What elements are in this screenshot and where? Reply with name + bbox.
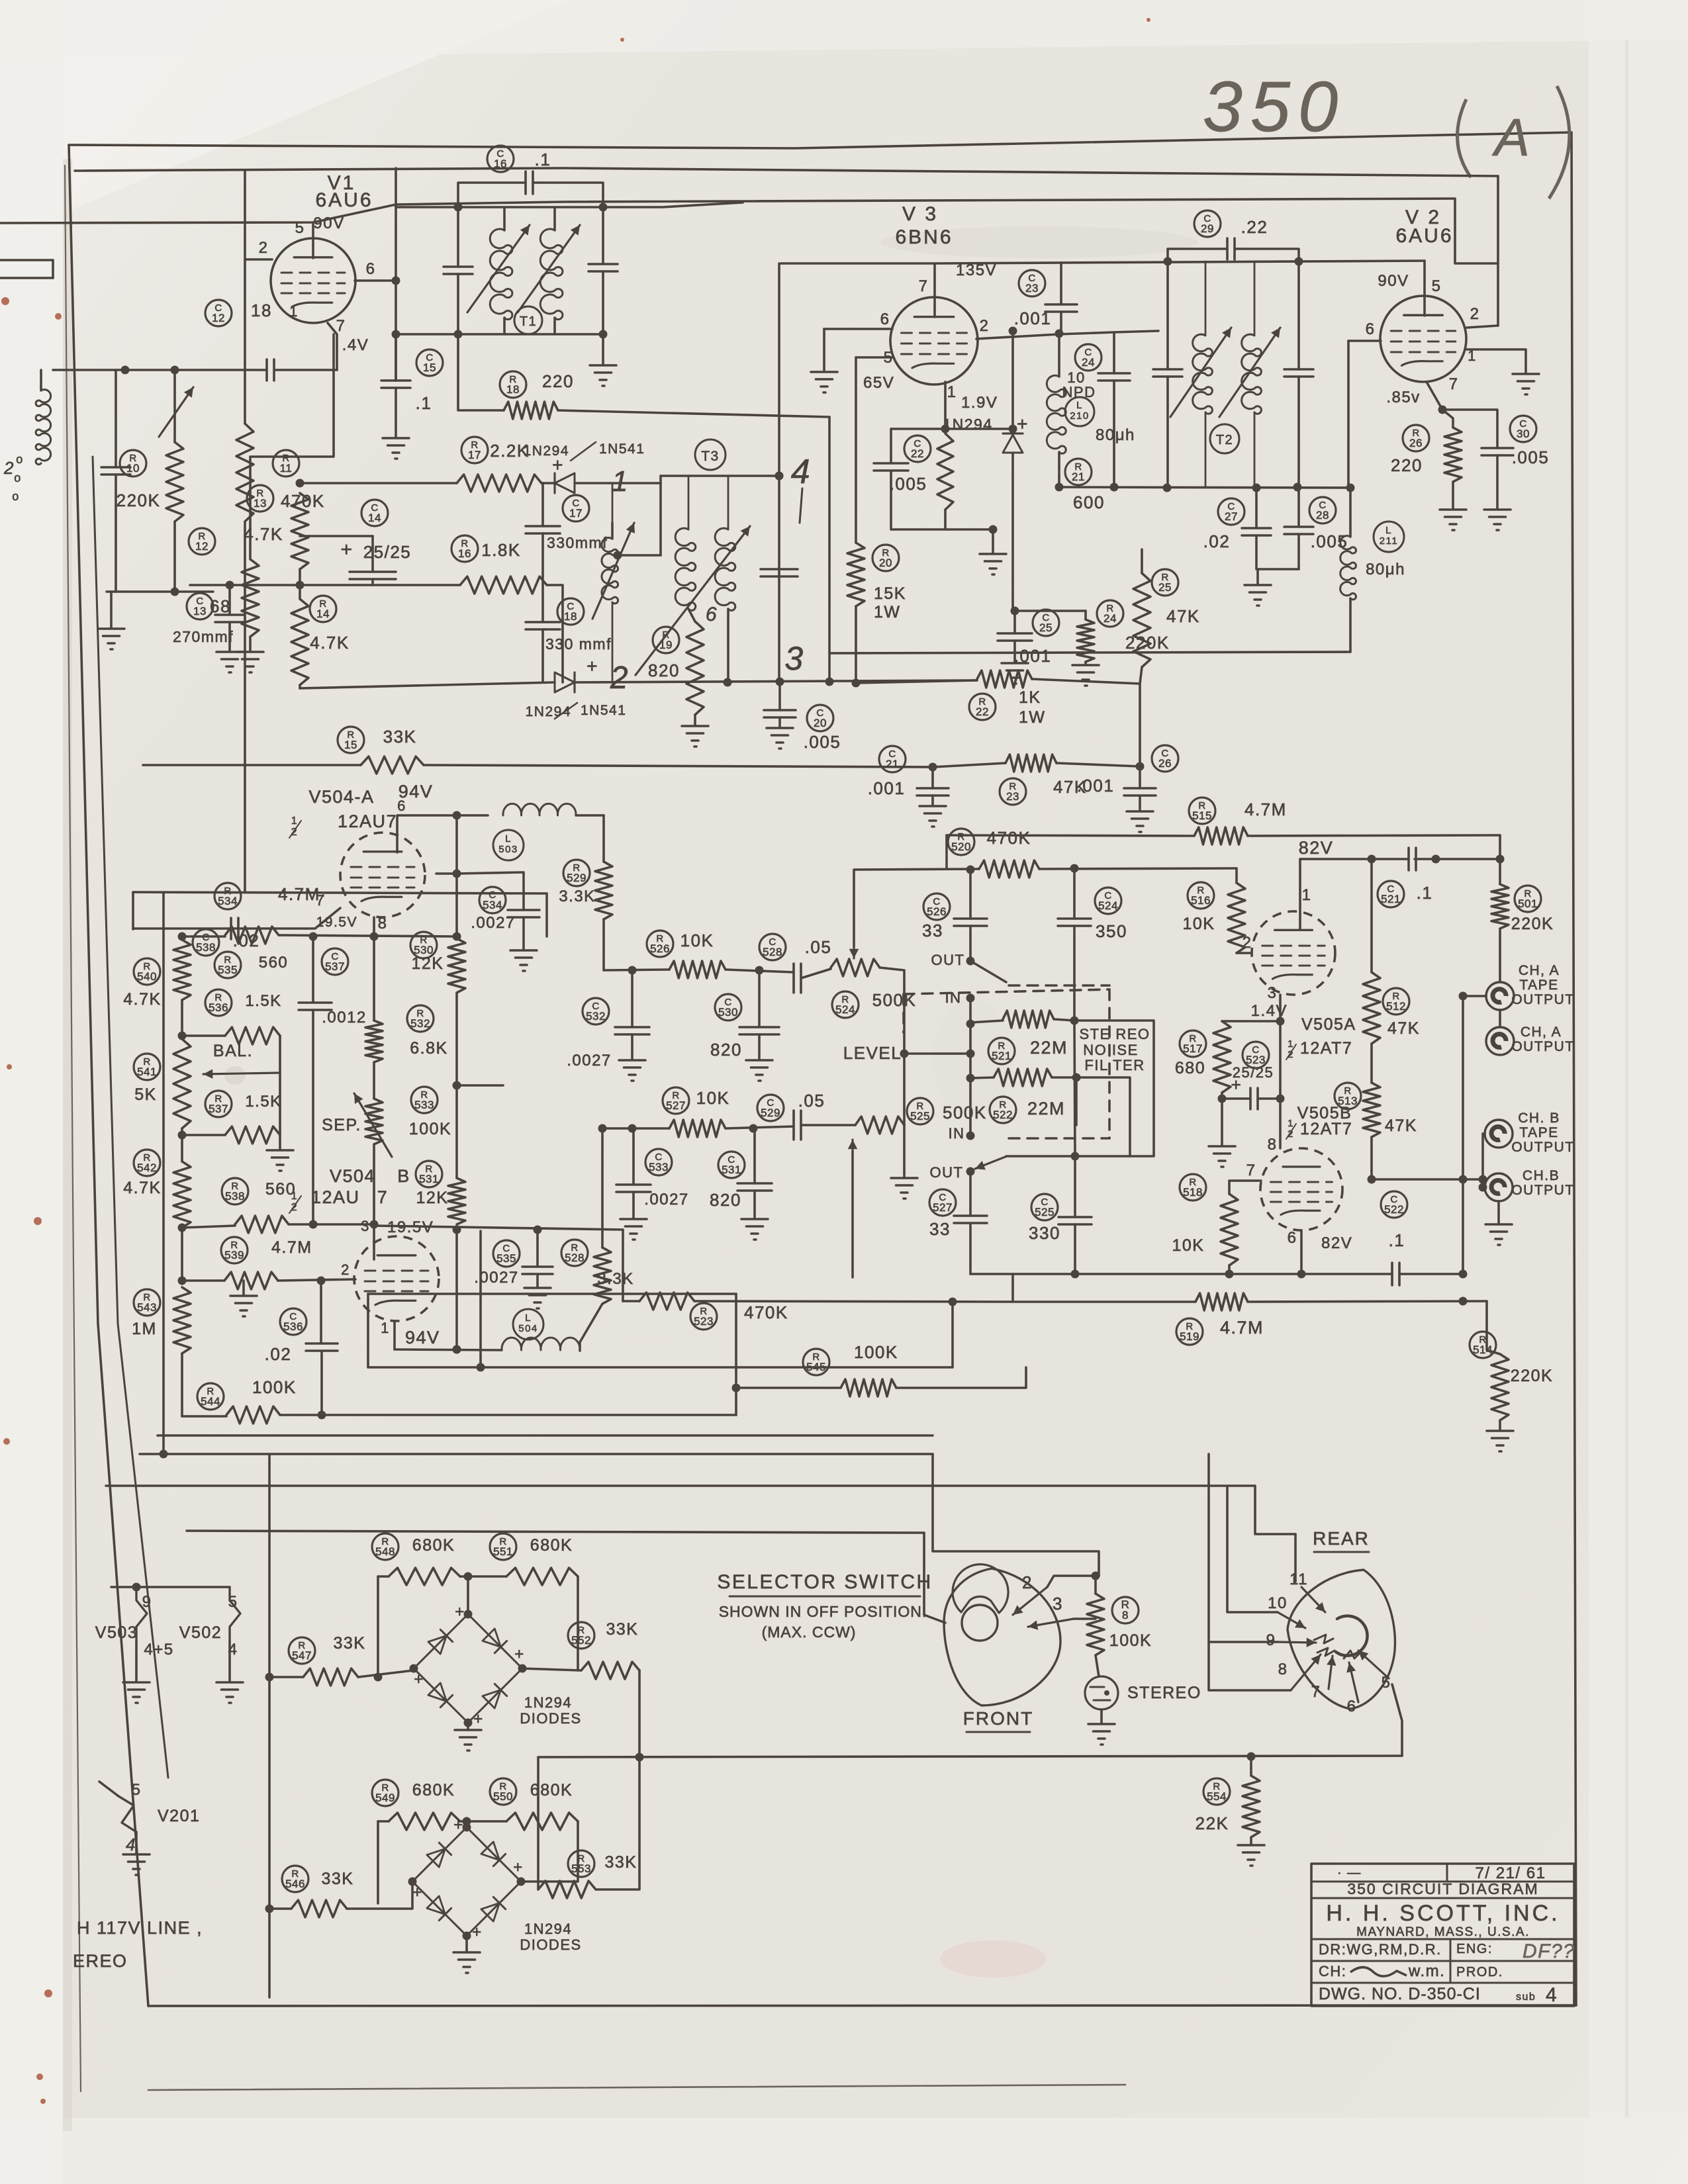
capacitor C531 820 xyxy=(718,1152,745,1178)
resistor R8 100K xyxy=(1112,1597,1139,1623)
svg-text:528: 528 xyxy=(565,1251,585,1264)
svg-text:SHOWN IN OFF POSITION.: SHOWN IN OFF POSITION. xyxy=(719,1603,927,1620)
resistor R22 1K 1W xyxy=(977,670,1032,688)
svg-text:82V: 82V xyxy=(1321,1234,1352,1252)
V504A pin8 lead xyxy=(373,917,375,936)
jack CH A OUTPUT xyxy=(1486,1027,1514,1055)
V504A pin6 plate lead xyxy=(397,815,488,852)
wire4 long horizontal y1158 xyxy=(143,764,361,766)
svg-text:ENG:: ENG: xyxy=(1456,1942,1493,1956)
svg-text:T1: T1 xyxy=(520,314,537,329)
svg-text:680K: 680K xyxy=(412,1781,455,1799)
separation pot R533 100K SEP xyxy=(411,1087,438,1113)
V3 pin6 to ground xyxy=(824,328,851,330)
border frame left xyxy=(69,145,148,2006)
svg-text:.1: .1 xyxy=(416,393,432,413)
svg-text:.05: .05 xyxy=(798,1091,825,1111)
wire R515 row to C521 node corner xyxy=(1499,835,1501,884)
svg-text:10K: 10K xyxy=(696,1088,730,1108)
svg-text:12AU: 12AU xyxy=(311,1187,360,1207)
svg-text:1M: 1M xyxy=(132,1320,157,1338)
resistor R14 4.7K xyxy=(310,596,336,622)
capacitor C535 .0027 xyxy=(493,1240,520,1267)
capacitor C24 xyxy=(1075,344,1102,371)
65V vertical down to R20 xyxy=(855,357,857,543)
svg-text:532: 532 xyxy=(410,1017,430,1030)
ground under R21 node xyxy=(992,529,994,553)
svg-text:533: 533 xyxy=(649,1161,669,1173)
resistor R553 33K xyxy=(568,1850,594,1877)
svg-text:522: 522 xyxy=(1384,1203,1404,1216)
svg-text:4.7M: 4.7M xyxy=(1244,799,1287,819)
V1 pin 5 lead xyxy=(312,222,314,258)
border frame left inner line xyxy=(93,457,168,1778)
vertical x1439 xyxy=(951,1302,954,1367)
cathode node wires xyxy=(944,410,947,429)
node3 wire continues xyxy=(856,680,977,683)
svg-text:.02: .02 xyxy=(265,1344,292,1364)
svg-text:+: + xyxy=(412,1884,423,1901)
resistor R513 47K xyxy=(1335,1083,1361,1109)
svg-text:350: 350 xyxy=(1096,921,1127,941)
svg-text:33K: 33K xyxy=(606,1620,639,1639)
svg-text:524: 524 xyxy=(1098,899,1118,912)
svg-text:550: 550 xyxy=(493,1790,513,1803)
svg-text:2: 2 xyxy=(291,1202,298,1213)
wire pin5 tail to bottom wire xyxy=(1392,1684,1402,1756)
svg-text:11: 11 xyxy=(280,462,293,475)
capacitor C537 .0012 xyxy=(322,948,348,975)
svg-text:513: 513 xyxy=(1338,1095,1358,1107)
bottom wire pin1 row 94V node xyxy=(395,1349,502,1350)
svg-text:470K: 470K xyxy=(744,1302,788,1322)
svg-text:12AT7: 12AT7 xyxy=(1300,1039,1352,1058)
svg-text:2: 2 xyxy=(980,317,990,335)
ground under R12 xyxy=(249,637,252,651)
pin3 row extension xyxy=(374,1226,623,1230)
svg-text:6: 6 xyxy=(1347,1698,1357,1715)
tube V1 6AU6 xyxy=(271,238,355,323)
svg-text:7/ 21/ 61: 7/ 21/ 61 xyxy=(1476,1864,1546,1882)
svg-text:12AT7: 12AT7 xyxy=(1300,1120,1352,1138)
resistor R532 6.8K xyxy=(407,1005,434,1032)
resistor R542 4.7K xyxy=(134,1150,160,1176)
svg-text:NPD: NPD xyxy=(1062,384,1096,400)
resistor R528 3.3K xyxy=(561,1240,588,1266)
vertical continues to R15 row xyxy=(244,522,246,892)
svg-text:14: 14 xyxy=(316,608,330,620)
svg-text:+: + xyxy=(340,539,353,561)
capacitor C23 .001 xyxy=(1019,270,1045,296)
capacitor C30 .005 xyxy=(1510,416,1536,442)
jack CH A TAPE OUTPUT xyxy=(1486,982,1514,1010)
svg-text:80μh: 80μh xyxy=(1096,426,1135,444)
svg-text:350: 350 xyxy=(1203,66,1346,146)
ground under left cap xyxy=(110,592,113,627)
tube V504B half 12AU7 dashed xyxy=(354,1236,439,1321)
resistor R17 2.2K xyxy=(461,437,488,463)
svg-text:DIODES: DIODES xyxy=(520,1936,581,1953)
svg-text:T3: T3 xyxy=(701,449,720,464)
svg-text:2: 2 xyxy=(259,239,269,257)
svg-text:526: 526 xyxy=(927,905,947,918)
V3 box vertical left xyxy=(780,262,782,265)
svg-text:100K: 100K xyxy=(854,1342,898,1362)
svg-text:+: + xyxy=(513,1858,524,1876)
resistor R13 4.7K xyxy=(247,485,273,512)
svg-text:8: 8 xyxy=(1278,1661,1288,1678)
svg-text:sub: sub xyxy=(1516,1991,1536,2003)
svg-text:· —: · — xyxy=(1337,1866,1362,1880)
svg-text:350 CIRCUIT DIAGRAM: 350 CIRCUIT DIAGRAM xyxy=(1347,1880,1538,1897)
svg-text:90V: 90V xyxy=(313,214,344,232)
svg-text:553: 553 xyxy=(571,1862,591,1875)
svg-text:524: 524 xyxy=(835,1003,855,1016)
svg-text:.4V: .4V xyxy=(342,336,369,354)
ground under balance xyxy=(279,1135,281,1149)
svg-text:538: 538 xyxy=(225,1190,245,1203)
resistor R517 680 xyxy=(1180,1030,1206,1057)
svg-text:10: 10 xyxy=(1268,1594,1288,1612)
long wire y2655 xyxy=(538,1756,1402,1757)
ground left of C536 xyxy=(242,1281,245,1295)
T2 secondary coil xyxy=(1254,261,1256,336)
svg-text:V502: V502 xyxy=(179,1623,222,1642)
svg-text:10K: 10K xyxy=(1183,915,1215,933)
svg-text:5: 5 xyxy=(132,1781,142,1799)
svg-text:528: 528 xyxy=(763,946,782,958)
ground under T1 right xyxy=(602,334,604,364)
svg-text:MAYNARD, MASS., U.S.A.: MAYNARD, MASS., U.S.A. xyxy=(1356,1925,1530,1939)
svg-text:529: 529 xyxy=(567,872,586,884)
svg-text:520: 520 xyxy=(951,841,971,853)
svg-text:25: 25 xyxy=(1039,621,1053,634)
svg-text:A: A xyxy=(1492,108,1531,167)
svg-text:CH, A: CH, A xyxy=(1521,1024,1562,1040)
svg-text:545: 545 xyxy=(806,1361,826,1373)
svg-text:536: 536 xyxy=(209,1001,228,1014)
wire from R18 to dropdown xyxy=(558,410,829,417)
svg-text:220K: 220K xyxy=(1511,1367,1553,1385)
svg-text:25: 25 xyxy=(1158,581,1172,594)
svg-text:537: 537 xyxy=(209,1103,228,1115)
diode vertical on x1530 xyxy=(1011,331,1014,433)
svg-text:519: 519 xyxy=(1180,1330,1199,1343)
svg-text:13: 13 xyxy=(193,605,207,617)
svg-text:3: 3 xyxy=(361,1218,370,1234)
svg-text:TAPE: TAPE xyxy=(1519,1125,1558,1140)
T2 left vertical xyxy=(1166,261,1169,369)
svg-text:525: 525 xyxy=(910,1110,930,1122)
capacitor C522 .1 inline xyxy=(1381,1191,1407,1218)
T2 label xyxy=(1210,424,1239,453)
capacitor C12 xyxy=(265,359,268,381)
ground under jacks xyxy=(1497,1201,1500,1223)
svg-text:V505A: V505A xyxy=(1301,1015,1356,1034)
page edge faint line bottom xyxy=(148,2085,1125,2090)
svg-text:100K: 100K xyxy=(252,1377,297,1397)
svg-text:4.7K: 4.7K xyxy=(123,1179,161,1197)
potentiometer R525 500K xyxy=(907,1098,933,1124)
V504A pin7 grid wire xyxy=(133,908,340,929)
svg-text:554: 554 xyxy=(1207,1790,1227,1803)
resistor R518 10K xyxy=(1180,1174,1206,1201)
svg-text:1.5K: 1.5K xyxy=(245,992,281,1010)
svg-text:1N294: 1N294 xyxy=(524,1694,572,1711)
svg-text:24: 24 xyxy=(1082,356,1095,369)
tube V504A half 12AU7 dashed xyxy=(340,833,425,917)
svg-text:532: 532 xyxy=(586,1010,606,1023)
svg-text:540: 540 xyxy=(137,970,157,983)
T1 bottom wire xyxy=(396,333,603,336)
svg-text:537: 537 xyxy=(325,960,345,973)
svg-text:6BN6: 6BN6 xyxy=(895,226,953,248)
svg-text:.02: .02 xyxy=(1203,531,1231,551)
V3 pin 1 cathode xyxy=(944,382,947,410)
resistor R15 33K xyxy=(338,727,364,753)
resistor R546 33K xyxy=(282,1866,308,1892)
svg-text:1N541: 1N541 xyxy=(581,703,626,718)
svg-text:DF??: DF?? xyxy=(1523,1940,1575,1962)
svg-text:.1: .1 xyxy=(1389,1230,1405,1250)
svg-text:552: 552 xyxy=(571,1634,591,1647)
V1 pin 6 wire xyxy=(355,279,396,282)
svg-text:12K: 12K xyxy=(412,954,444,973)
svg-text:527: 527 xyxy=(666,1099,686,1112)
ground mid cluster xyxy=(489,584,491,586)
resistor R514 220K xyxy=(1470,1332,1496,1358)
T1 primary tuning arrow xyxy=(467,225,530,312)
capacitor C528 25/25 cathode xyxy=(1243,1042,1269,1068)
capacitor C28 .005 xyxy=(1309,497,1336,523)
svg-text:820: 820 xyxy=(710,1190,741,1210)
svg-text:680K: 680K xyxy=(530,1536,573,1555)
svg-text:o: o xyxy=(14,471,22,484)
svg-text:8: 8 xyxy=(378,915,388,933)
resistor R549 680K xyxy=(372,1780,399,1806)
svg-text:+: + xyxy=(414,1670,424,1688)
svg-text:2: 2 xyxy=(1022,1572,1033,1592)
svg-text:100K: 100K xyxy=(1109,1631,1152,1650)
svg-text:1.9V: 1.9V xyxy=(961,394,998,412)
V505A pin3 cathode xyxy=(1279,995,1282,1021)
svg-text:534: 534 xyxy=(218,895,238,907)
svg-text:820: 820 xyxy=(648,660,680,680)
resistor R12 68 xyxy=(189,528,215,555)
svg-text:STE REO: STE REO xyxy=(1079,1026,1150,1042)
svg-text:1K: 1K xyxy=(1019,688,1041,707)
svg-text:21: 21 xyxy=(1072,471,1085,483)
svg-text:22M: 22M xyxy=(1030,1038,1068,1058)
left column verticals xyxy=(181,936,183,940)
V2 pin1 wire to ground xyxy=(1467,349,1526,373)
wire R15 row drop to C538 row xyxy=(132,892,134,929)
svg-text:4: 4 xyxy=(1546,1984,1558,2006)
wire y884 xyxy=(190,584,410,586)
svg-text:L: L xyxy=(525,1312,532,1324)
svg-text:1W: 1W xyxy=(1019,708,1046,727)
svg-text:24: 24 xyxy=(1103,612,1117,625)
stereo noise filter dashed box xyxy=(904,989,1109,994)
jack CH B OUTPUT xyxy=(1485,1173,1513,1201)
wire y398 continues right from V3 to V2 xyxy=(935,261,1425,263)
svg-text:65V: 65V xyxy=(863,374,894,392)
svg-text:H 117V LINE ,: H 117V LINE , xyxy=(77,1918,203,1938)
svg-text:.1: .1 xyxy=(535,150,551,169)
resistor R512 47K xyxy=(1383,988,1409,1015)
svg-text:21: 21 xyxy=(886,758,899,770)
svg-text:16: 16 xyxy=(458,547,471,560)
diode bridge 2 1N294 xyxy=(412,1827,467,1882)
svg-text:V503: V503 xyxy=(95,1623,138,1642)
dashed link to filter B xyxy=(1009,1137,1109,1140)
page edge faint vertical left xyxy=(65,165,81,2091)
svg-text:4.7M: 4.7M xyxy=(1220,1318,1264,1338)
svg-text:20: 20 xyxy=(879,557,892,569)
svg-text:1.8K: 1.8K xyxy=(481,540,521,560)
svg-text:29: 29 xyxy=(1201,222,1214,235)
svg-text:22: 22 xyxy=(976,705,989,718)
jack CH B TAPE OUTPUT xyxy=(1485,1120,1513,1148)
ground bridge2 bottom xyxy=(465,1936,468,1951)
svg-text:6AU6: 6AU6 xyxy=(1395,225,1453,247)
resistor R550 680K xyxy=(490,1778,516,1805)
diode 2 1N541 lower xyxy=(300,682,555,688)
vertical x556 linking xyxy=(367,1294,369,1367)
resistor R552 33K xyxy=(568,1622,594,1649)
V2 pin7 cathode xyxy=(1427,382,1442,410)
resistor R548 680K xyxy=(372,1533,399,1560)
ratio detector coil with arrow xyxy=(602,537,618,603)
svg-text:+: + xyxy=(455,1603,465,1621)
vertical x2210 tape bus xyxy=(1462,996,1464,1274)
svg-text:T2: T2 xyxy=(1216,433,1233,447)
svg-text:7: 7 xyxy=(377,1187,389,1207)
capacitor C527 33 xyxy=(929,1189,956,1216)
V3 pin 2 wire xyxy=(976,331,1158,339)
node 4 vertical from V3 wire xyxy=(778,263,780,682)
V1 pin 1 lead xyxy=(328,323,337,370)
svg-text:.0027: .0027 xyxy=(644,1191,689,1208)
svg-text:531: 531 xyxy=(722,1163,741,1176)
svg-text:47K: 47K xyxy=(1385,1116,1417,1135)
T2 left tuning cap xyxy=(1153,368,1182,371)
svg-text:533: 533 xyxy=(414,1099,434,1111)
ground under R19 xyxy=(682,725,708,727)
inductor L504 xyxy=(513,1309,543,1340)
svg-text:680K: 680K xyxy=(530,1781,573,1799)
svg-text:6: 6 xyxy=(880,310,890,328)
wire y894 xyxy=(107,590,213,593)
svg-text:STEREO: STEREO xyxy=(1127,1684,1201,1702)
svg-text:4+5: 4+5 xyxy=(144,1641,173,1659)
svg-text:501: 501 xyxy=(1518,897,1538,910)
tube V505B dashed xyxy=(1260,1148,1342,1230)
svg-text:527: 527 xyxy=(933,1201,953,1214)
svg-text:5K: 5K xyxy=(134,1085,157,1104)
T1 secondary coil xyxy=(553,207,556,230)
svg-text:.001: .001 xyxy=(1077,776,1115,796)
svg-text:270mmf: 270mmf xyxy=(173,628,234,645)
svg-text:26: 26 xyxy=(1409,437,1423,449)
svg-text:2: 2 xyxy=(3,458,15,478)
svg-text:12: 12 xyxy=(212,312,225,324)
T1 plate wire y313 xyxy=(396,203,743,207)
svg-text:o: o xyxy=(16,453,24,466)
diode bridge 1 1N294 xyxy=(414,1614,468,1668)
ground under C27/C28 xyxy=(1256,569,1259,584)
svg-text:OUTPUT: OUTPUT xyxy=(1511,1140,1574,1155)
svg-text:4: 4 xyxy=(791,453,811,491)
resistor R554 22K xyxy=(1203,1778,1230,1805)
resistor R522 22M xyxy=(990,1097,1016,1123)
svg-text:547: 547 xyxy=(292,1649,312,1662)
svg-text:9: 9 xyxy=(1266,1631,1276,1649)
svg-text:DWG. NO. D-350-CI: DWG. NO. D-350-CI xyxy=(1319,1985,1481,2003)
svg-text:1N294: 1N294 xyxy=(943,416,992,433)
svg-text:10K: 10K xyxy=(1172,1236,1205,1255)
svg-text:V504-A: V504-A xyxy=(308,787,374,807)
svg-text:330 mmf: 330 mmf xyxy=(545,635,612,653)
svg-text:2: 2 xyxy=(341,1261,350,1278)
svg-text:515: 515 xyxy=(1192,809,1212,822)
svg-text:560: 560 xyxy=(259,954,289,972)
svg-text:17: 17 xyxy=(569,507,583,520)
svg-text:5: 5 xyxy=(295,219,305,237)
svg-text:19: 19 xyxy=(659,639,673,651)
svg-text:1: 1 xyxy=(291,1191,298,1202)
svg-text:22: 22 xyxy=(911,447,924,460)
potentiometer R524 500K xyxy=(832,991,859,1018)
svg-text:26: 26 xyxy=(1158,757,1172,770)
svg-text:539: 539 xyxy=(224,1249,244,1261)
svg-text:2: 2 xyxy=(1470,305,1480,323)
svg-text:REAR: REAR xyxy=(1313,1528,1370,1549)
svg-text:L: L xyxy=(1385,525,1392,536)
wire y2237 xyxy=(106,1484,1255,1487)
svg-text:1: 1 xyxy=(612,465,629,498)
svg-text:549: 549 xyxy=(375,1792,395,1804)
resistor R526 10K xyxy=(647,931,673,957)
diode 1N294/1N541 upper xyxy=(541,482,555,484)
svg-text:16: 16 xyxy=(494,158,507,170)
wire y2313 drop to front switch xyxy=(924,1533,945,1623)
svg-text:523: 523 xyxy=(694,1315,714,1328)
svg-text:529: 529 xyxy=(761,1107,780,1119)
svg-text:SELECTOR SWITCH: SELECTOR SWITCH xyxy=(717,1571,932,1593)
svg-text:1N294: 1N294 xyxy=(524,1921,572,1937)
resistor R543 1M xyxy=(134,1289,160,1316)
svg-text:3: 3 xyxy=(784,640,804,677)
border frame top xyxy=(69,132,1571,148)
stereo switch CH A: C526 33 xyxy=(923,893,950,920)
wire diode2 to T3 bottom xyxy=(575,680,977,682)
svg-text:546: 546 xyxy=(285,1878,305,1890)
svg-text:.005: .005 xyxy=(1512,447,1550,467)
wire y1348 grid feed xyxy=(133,892,547,893)
svg-text:534: 534 xyxy=(483,899,502,911)
resistor R534 4.7M xyxy=(214,883,241,909)
resistor R545 100K xyxy=(803,1349,829,1375)
svg-text:3: 3 xyxy=(1268,984,1278,1002)
svg-text:531: 531 xyxy=(419,1173,439,1185)
svg-text:680K: 680K xyxy=(412,1536,455,1555)
svg-text:503: 503 xyxy=(498,844,518,855)
capacitor C521 .1 xyxy=(1378,881,1404,907)
svg-text:25/25: 25/25 xyxy=(363,542,412,562)
svg-text:.005: .005 xyxy=(804,732,841,752)
svg-text:521: 521 xyxy=(1381,893,1401,905)
